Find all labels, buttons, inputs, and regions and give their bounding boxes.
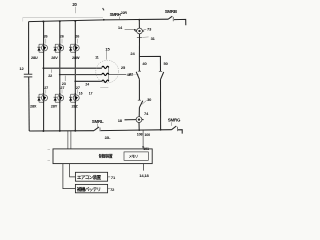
- svg-text:26: 26: [44, 34, 48, 38]
- svg-text:71: 71: [111, 175, 116, 180]
- svg-text:31: 31: [151, 36, 156, 41]
- svg-text:26: 26: [75, 34, 79, 38]
- svg-text:20: 20: [72, 2, 77, 7]
- svg-text:22L: 22L: [105, 136, 112, 140]
- svg-text:101: 101: [143, 147, 149, 151]
- svg-text:50: 50: [164, 61, 169, 66]
- svg-text:24: 24: [85, 83, 89, 87]
- svg-text:26: 26: [60, 34, 64, 38]
- svg-text:28W: 28W: [72, 55, 80, 60]
- svg-text:12: 12: [19, 66, 24, 71]
- svg-text:SMRL: SMRL: [92, 119, 104, 124]
- svg-text:SMRG: SMRG: [168, 117, 181, 122]
- svg-text:メモリ: メモリ: [129, 154, 138, 159]
- svg-text:100: 100: [144, 133, 150, 137]
- svg-text:11: 11: [95, 55, 99, 59]
- svg-text:18: 18: [118, 118, 123, 123]
- svg-text:24: 24: [130, 51, 135, 56]
- svg-text:16: 16: [79, 92, 83, 96]
- svg-text:補機バッテリ: 補機バッテリ: [76, 186, 101, 193]
- svg-text:17: 17: [89, 92, 93, 96]
- svg-text:22: 22: [48, 74, 52, 78]
- svg-text:28Z: 28Z: [72, 103, 79, 108]
- svg-text:SMRB: SMRB: [165, 9, 177, 14]
- svg-text:28V: 28V: [51, 55, 58, 60]
- svg-text:エアコン装置: エアコン装置: [77, 174, 102, 181]
- svg-text:15: 15: [105, 46, 110, 51]
- svg-text:27: 27: [76, 86, 80, 90]
- svg-text:22R: 22R: [121, 11, 128, 15]
- svg-text:14: 14: [118, 25, 123, 30]
- svg-text:SMRH: SMRH: [110, 12, 121, 17]
- svg-text:27: 27: [44, 86, 48, 90]
- svg-text:制御装置: 制御装置: [99, 154, 113, 159]
- svg-text:14,18: 14,18: [139, 173, 149, 178]
- svg-text:28X: 28X: [30, 103, 37, 108]
- svg-text:27: 27: [60, 86, 64, 90]
- svg-text:25: 25: [121, 65, 126, 70]
- svg-text:40: 40: [142, 61, 147, 66]
- svg-text:73: 73: [147, 27, 152, 32]
- svg-text:108: 108: [137, 133, 143, 137]
- svg-text:28U: 28U: [31, 55, 38, 60]
- svg-text:28Y: 28Y: [51, 103, 58, 108]
- svg-text:41: 41: [127, 73, 131, 77]
- svg-text:30: 30: [147, 97, 152, 102]
- svg-text:72: 72: [110, 187, 115, 192]
- svg-text:74: 74: [144, 111, 149, 116]
